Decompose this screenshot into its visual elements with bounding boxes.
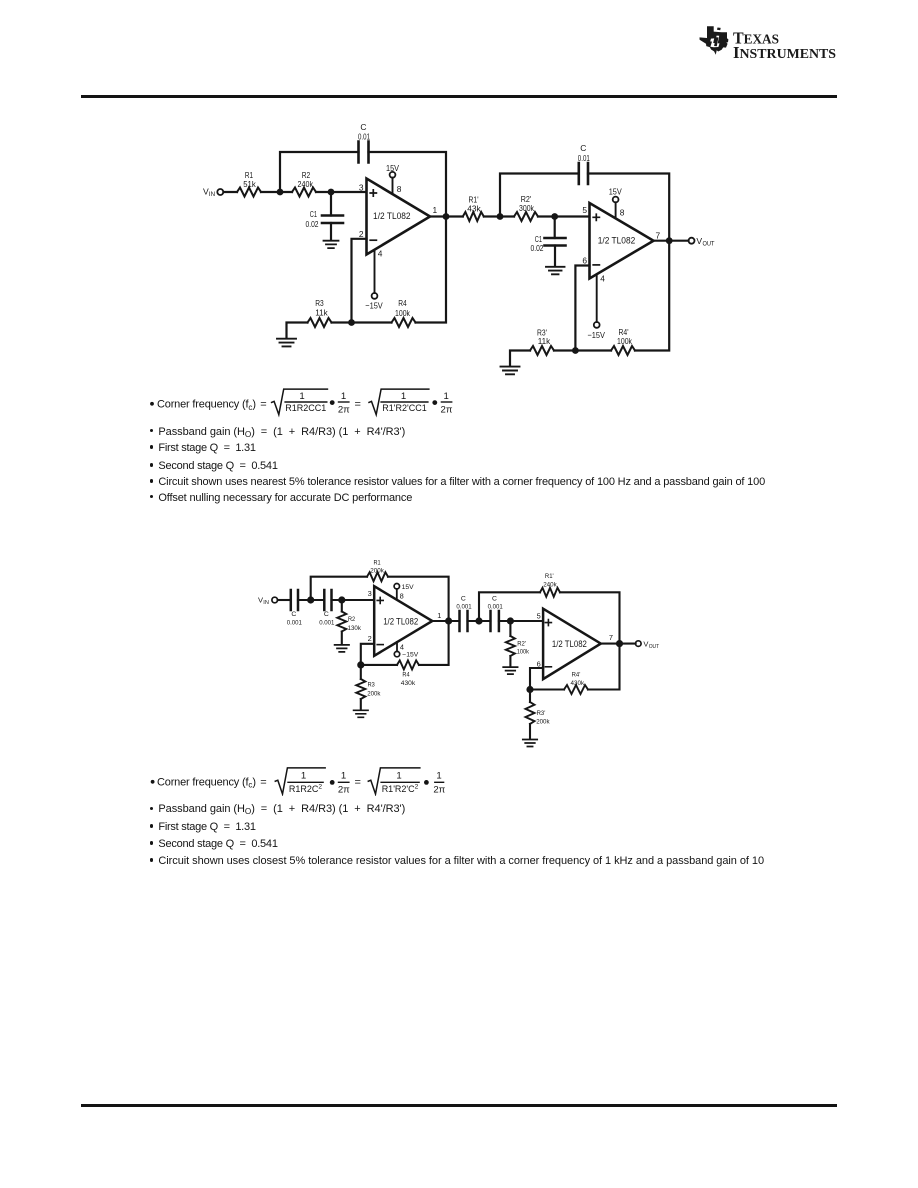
wire output to VOUT xyxy=(654,240,689,242)
svg-text:430k: 430k xyxy=(571,680,585,687)
resistor R2' 100k shunt xyxy=(506,621,530,666)
capacitor C1 0.02 shunt xyxy=(306,192,344,240)
bullet list circuit 1 notes xyxy=(150,426,405,438)
svg-text:OUT: OUT xyxy=(703,241,715,248)
resistor R3' 11k xyxy=(530,327,554,355)
wire pin2 inverting input xyxy=(352,239,367,323)
wire C2 to op-amp xyxy=(332,599,375,601)
ground left stage1 xyxy=(277,339,296,347)
wire feedback top left xyxy=(280,152,359,192)
wire ground rail left xyxy=(287,323,308,338)
wire C to C2 xyxy=(298,599,324,601)
capacitor C 0.001 series fourth xyxy=(488,596,503,631)
node stage2 output dot xyxy=(616,640,623,647)
node G junction dot xyxy=(357,661,364,668)
ground below R2' xyxy=(503,667,517,674)
wire R4 to output column xyxy=(416,217,447,323)
svg-text:R1R2CC1: R1R2CC1 xyxy=(285,403,326,413)
wire R4' to output column xyxy=(635,241,669,351)
capacitor C 0.001 series interstage xyxy=(456,596,471,631)
svg-text:TEXAS: TEXAS xyxy=(733,29,779,48)
node VIN input terminal xyxy=(203,186,223,198)
wire R2' to op-amp xyxy=(538,215,590,217)
wire output to VOUT stage2 xyxy=(601,643,636,645)
ground below C1 xyxy=(324,241,339,248)
svg-text:R1'R2'CC1: R1'R2'CC1 xyxy=(382,403,426,413)
node D junction dot xyxy=(551,213,558,220)
svg-text:5: 5 xyxy=(537,612,541,621)
feedback resistor R1' 240k xyxy=(479,573,620,644)
node F junction dot xyxy=(338,596,345,603)
ground below C1' xyxy=(546,267,565,275)
svg-text:15V: 15V xyxy=(609,187,622,197)
wire ground rail left stage2 xyxy=(510,351,530,366)
capacitor C 0.001 series input xyxy=(287,590,302,627)
node VIN input terminal xyxy=(258,596,278,607)
formula corner frequency circuit 2 xyxy=(145,760,465,796)
ground below R3 xyxy=(354,710,368,717)
svg-text:200k: 200k xyxy=(536,718,550,725)
op-amp U2A 1/2 TL082 xyxy=(374,586,432,656)
feedback capacitor C' 0.01 xyxy=(578,143,590,184)
op-amp U1A pin4 -15V stub xyxy=(365,249,383,311)
svg-text:0.01: 0.01 xyxy=(578,153,590,163)
Texas Instruments logo xyxy=(699,25,839,60)
ground left stage2 xyxy=(501,367,520,375)
svg-text:OUT: OUT xyxy=(649,644,660,650)
svg-text:1/2 TL082: 1/2 TL082 xyxy=(598,234,636,245)
TI Texas-map bug xyxy=(700,26,729,55)
bullet list circuit 2 notes xyxy=(150,803,405,815)
node H junction dot xyxy=(475,617,482,624)
svg-text:100k: 100k xyxy=(517,649,530,656)
svg-text:1: 1 xyxy=(299,391,304,402)
capacitor C 0.001 series second xyxy=(319,590,334,627)
svg-text:R4': R4' xyxy=(572,671,581,678)
wire R3 to R4 xyxy=(332,321,392,323)
resistor R2 240k xyxy=(292,170,316,196)
node J junction dot xyxy=(526,686,533,693)
resistor R4' 100k xyxy=(611,327,635,355)
svg-text:=: = xyxy=(260,777,266,789)
svg-text:0.001: 0.001 xyxy=(488,604,503,611)
svg-text:0.02: 0.02 xyxy=(531,243,544,253)
svg-text:5: 5 xyxy=(582,205,587,215)
svg-text:C: C xyxy=(580,143,586,153)
wire R1 to R2 xyxy=(261,191,292,193)
circuit 1 stage 2 xyxy=(180,115,725,380)
resistor R2' 300k xyxy=(514,194,538,221)
node output stage1 dot xyxy=(443,213,450,220)
resistor R3 11k xyxy=(308,298,332,327)
node stage1 output dot xyxy=(445,617,452,624)
node VOUT terminal xyxy=(689,236,715,248)
op-amp U2B 1/2 TL082 xyxy=(543,609,601,679)
op-amp U1A 1/2 TL082 xyxy=(367,179,431,255)
node output stage2 dot xyxy=(666,237,673,244)
svg-text:2π: 2π xyxy=(338,785,350,796)
wire feedback top right xyxy=(369,152,447,217)
svg-text:Corner frequency (fc): Corner frequency (fc) xyxy=(157,399,256,412)
svg-text:1: 1 xyxy=(301,771,306,782)
svg-text:1: 1 xyxy=(444,391,449,402)
svg-text:=: = xyxy=(355,776,361,788)
node A junction dot xyxy=(277,189,284,196)
ground below R3' xyxy=(523,740,537,747)
op-amp U1B pin4 -15V stub xyxy=(587,273,605,340)
svg-text:7: 7 xyxy=(656,230,661,240)
svg-text:0.001: 0.001 xyxy=(456,604,471,611)
svg-text:R3': R3' xyxy=(537,710,546,717)
svg-text:2π: 2π xyxy=(433,785,445,796)
svg-text:C: C xyxy=(492,596,497,603)
svg-text:6: 6 xyxy=(582,255,587,265)
svg-text:Corner frequency (fc): Corner frequency (fc) xyxy=(157,777,256,790)
circuit 1: two-stage low-pass active filter xyxy=(180,115,725,380)
wire VIN to C xyxy=(278,599,291,601)
wire VIN to R1 xyxy=(224,191,238,193)
resistor R3' 200k shunt xyxy=(526,690,551,739)
svg-text:R1R2C2: R1R2C2 xyxy=(289,784,323,794)
formula corner frequency circuit 1 xyxy=(145,384,465,418)
feedback resistor R1 200k xyxy=(311,560,449,622)
resistor R3 200k shunt xyxy=(356,665,381,710)
svg-text:11k: 11k xyxy=(538,336,551,346)
op-amp U2A pin8 +15V xyxy=(394,584,414,601)
svg-text:43k: 43k xyxy=(467,204,481,214)
svg-text:R1': R1' xyxy=(545,573,554,580)
svg-text:2π: 2π xyxy=(441,404,453,415)
wire feedback top left stage2 xyxy=(500,174,579,217)
svg-text:V: V xyxy=(696,236,702,246)
svg-text:1/2 TL082: 1/2 TL082 xyxy=(552,639,587,649)
circuit 2 stage 2 xyxy=(250,550,670,760)
node C junction dot xyxy=(497,213,504,220)
feedback capacitor C 0.01 xyxy=(358,122,370,162)
node I junction dot xyxy=(507,617,514,624)
bottom horizontal rule xyxy=(81,1104,837,1107)
svg-text:=: = xyxy=(355,399,361,411)
svg-text:1: 1 xyxy=(341,391,346,402)
wire R3' to R4' xyxy=(554,349,611,351)
svg-text:=: = xyxy=(260,399,266,411)
resistor R1' 43k xyxy=(463,195,484,221)
wire stage1 output xyxy=(432,620,459,622)
svg-text:100k: 100k xyxy=(617,336,633,346)
wire op-amp output xyxy=(430,215,463,217)
svg-text:R1'R2'C2: R1'R2'C2 xyxy=(382,784,419,794)
node feedback junction dot xyxy=(348,319,355,326)
svg-text:1: 1 xyxy=(341,771,346,782)
resistor R4 100k xyxy=(392,298,416,327)
node E junction dot xyxy=(307,596,314,603)
node B junction dot xyxy=(328,189,335,196)
node feedback junction stage2 dot xyxy=(572,347,579,354)
svg-text:C: C xyxy=(461,596,466,603)
op-amp U1B 1/2 TL082 xyxy=(590,203,654,279)
svg-text:1: 1 xyxy=(396,771,401,782)
svg-text:240k: 240k xyxy=(543,581,557,588)
wire pin6 inverting input xyxy=(530,668,543,690)
resistor R2 130k shunt xyxy=(337,600,361,644)
wire pin6 inverting input xyxy=(575,266,589,351)
svg-text:4: 4 xyxy=(600,273,605,283)
resistor R4' 430k feedback xyxy=(530,644,620,694)
wire C3 to C4 xyxy=(468,620,491,622)
wire R1' to R2' xyxy=(484,215,514,217)
svg-text:R2': R2' xyxy=(517,640,526,647)
wire C4 to op-amp xyxy=(499,620,543,622)
ground below R2 xyxy=(335,645,349,652)
op-amp U1A pin8 +15V stub xyxy=(386,163,402,196)
top horizontal rule xyxy=(81,95,837,98)
resistor R4 430k feedback xyxy=(361,621,449,687)
svg-text:1: 1 xyxy=(401,391,406,402)
op-amp U2A pin4 -15V xyxy=(394,642,418,659)
circuit 2: two-stage high-pass active filter xyxy=(250,550,670,760)
svg-text:−15V: −15V xyxy=(587,330,605,340)
svg-text:2π: 2π xyxy=(338,404,350,415)
wire feedback top right stage2 xyxy=(588,174,669,241)
wire pin2 inverting input xyxy=(361,644,374,665)
svg-text:7: 7 xyxy=(609,633,613,642)
svg-text:300k: 300k xyxy=(519,203,535,213)
wire R2 to op-amp xyxy=(316,191,367,193)
resistor R1 51k xyxy=(237,170,261,196)
svg-text:8: 8 xyxy=(620,208,625,218)
op-amp U1B pin8 +15V stub xyxy=(609,187,625,219)
capacitor C1' 0.02 shunt xyxy=(531,217,566,266)
svg-text:INSTRUMENTS: INSTRUMENTS xyxy=(733,43,836,60)
node VOUT terminal xyxy=(636,639,660,650)
svg-text:1: 1 xyxy=(436,771,441,782)
